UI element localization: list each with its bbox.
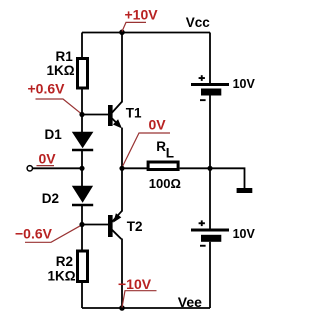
wire right rail top segment (209, 33, 211, 84)
svg-text:T1: T1 (126, 105, 142, 120)
annotation +0.6V (28, 81, 83, 115)
T2 base bar (108, 215, 113, 237)
node T2 base junction (79, 222, 84, 227)
wire input to diode node (33, 167, 82, 169)
wire right rail middle segment (junction to B2) (209, 168, 211, 228)
annotation -0.6V (15, 225, 82, 243)
leader line +0.6V (36, 99, 83, 114)
battery B1 (upper 10V source) (191, 75, 256, 101)
node bottom junction (T2 collector to Vee rail) (119, 305, 125, 311)
input terminal (open circle) (27, 166, 32, 171)
svg-text:R2: R2 (56, 254, 73, 269)
wire right rail middle segment (B1 to junction) (209, 96, 211, 169)
resistor R1 body (78, 59, 88, 89)
wire left rail to R1 top (81, 33, 83, 59)
svg-text:D1: D1 (45, 127, 63, 142)
svg-text:R: R (156, 139, 166, 154)
wire T2 emitter up to output node (121, 168, 123, 211)
wire bottom rail (Vee rail) (82, 307, 210, 309)
B1 plus sign (199, 77, 205, 79)
annotation -10V (118, 276, 157, 308)
D1 cathode bar (72, 149, 93, 152)
B1 positive plate (191, 83, 229, 86)
T1 emitter stroke (112, 118, 121, 126)
wire RL to right rail (180, 167, 210, 169)
D2 anode triangle (72, 186, 93, 203)
T2 emitter stroke (112, 211, 122, 222)
svg-text:+10V: +10V (125, 7, 159, 23)
annotation 0V at output (122, 117, 170, 168)
node top junction (T1 collector to Vcc rail) (119, 30, 125, 36)
resistor R2 (48, 251, 88, 284)
B2 plus sign (199, 222, 205, 224)
wire T1 base lead (82, 114, 109, 116)
svg-text:10V: 10V (233, 227, 256, 241)
svg-text:−10V: −10V (118, 276, 152, 292)
resistor R2 body (78, 251, 88, 282)
wire T1 emitter down to output node (121, 128, 123, 169)
svg-text:10V: 10V (233, 77, 256, 91)
T2 collector stroke (112, 230, 121, 239)
leader line -0.6V (25, 225, 82, 243)
diode D1 (45, 127, 94, 150)
svg-text:100Ω: 100Ω (149, 176, 181, 191)
transistor T2 (PNP) (108, 211, 143, 239)
svg-text:D2: D2 (42, 191, 59, 206)
svg-text:Vcc: Vcc (186, 15, 211, 30)
leader line -10V (122, 291, 157, 308)
leader line +10V (122, 22, 146, 31)
T2 emitter arrow (113, 213, 121, 222)
B1 minus sign (200, 99, 206, 101)
B2 positive plate (191, 229, 229, 232)
svg-text:−0.6V: −0.6V (15, 226, 53, 242)
T1 base bar (108, 105, 113, 126)
node right rail junction (207, 166, 212, 171)
resistor R1 (47, 49, 88, 88)
wire T2 base node to R2 top (81, 225, 83, 252)
wire output node to RL (122, 167, 148, 169)
wire R2 bottom to bottom rail (81, 282, 83, 308)
svg-text:0V: 0V (39, 151, 57, 167)
B2 minus sign (200, 245, 206, 247)
D1 anode triangle (72, 132, 94, 148)
svg-text:0V: 0V (149, 117, 167, 133)
svg-text:1KΩ: 1KΩ (48, 269, 76, 284)
svg-text:L: L (166, 145, 174, 160)
B1 negative plate (201, 89, 221, 96)
svg-text:1KΩ: 1KΩ (47, 63, 75, 78)
transistor T1 (NPN) (108, 102, 142, 129)
T1 collector stroke (112, 102, 122, 113)
wire T2 collector down to bottom rail (121, 239, 123, 309)
B2 negative plate (201, 235, 221, 242)
annotation 0V at input (37, 151, 57, 167)
svg-text:Vee: Vee (178, 294, 202, 310)
svg-text:T2: T2 (127, 219, 143, 234)
wire input node to D2 anode (81, 168, 83, 187)
annotation +10V (122, 7, 158, 32)
T1 emitter arrow (113, 119, 122, 128)
diode D2 (42, 186, 93, 206)
underline 0V input (37, 165, 55, 167)
wire T1 base node to D1 anode (81, 115, 83, 134)
svg-text:+0.6V: +0.6V (28, 81, 66, 97)
wire D2 cathode to T2 base node (81, 205, 83, 225)
battery B2 (lower 10V source) (191, 220, 256, 246)
wire T2 base lead (82, 224, 109, 226)
resistor RL (load) (148, 139, 181, 191)
wire ground branch (210, 168, 245, 188)
node output junction (119, 166, 124, 171)
D2 cathode bar (72, 204, 93, 207)
node input junction (between D1 and D2) (79, 166, 84, 171)
wire D1 cathode to input node (81, 150, 83, 168)
ground (237, 188, 253, 193)
wire R1 bottom to T1 base node (81, 90, 83, 115)
resistor RL body (148, 162, 178, 170)
wire right rail bottom segment (209, 242, 211, 308)
wire T1 collector to top rail (121, 33, 123, 103)
leader line 0V output (122, 133, 170, 168)
node T1 base junction (79, 112, 84, 117)
wire top rail (Vcc rail) (82, 32, 210, 34)
